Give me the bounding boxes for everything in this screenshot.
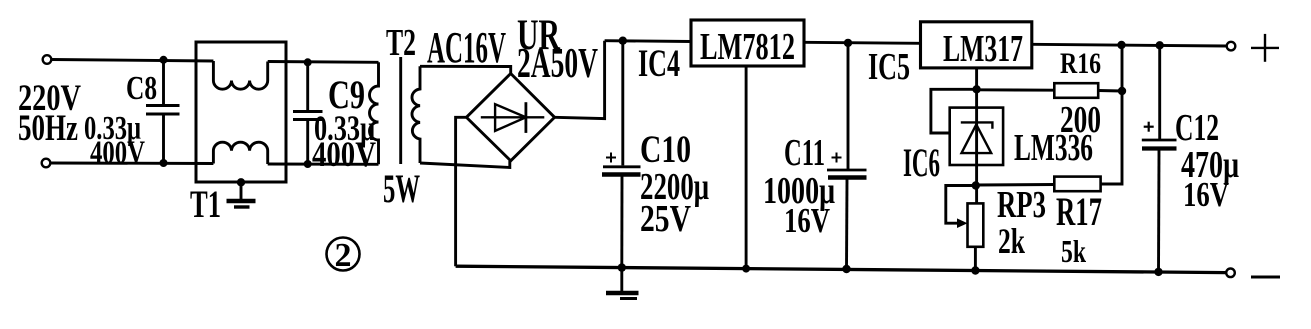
capacitor C9 <box>293 62 323 164</box>
svg-text:25V: 25V <box>640 198 691 240</box>
wire: T2 secondary bottom to bridge <box>420 161 510 168</box>
zener diode inside IC6 <box>961 122 993 153</box>
junction: R16 right <box>1118 87 1126 95</box>
svg-text:R16: R16 <box>1060 47 1101 80</box>
svg-text:C12: C12 <box>1175 107 1219 149</box>
output terminal - <box>1226 269 1235 278</box>
junction: C11 top <box>844 39 852 47</box>
wire: IC6 left pin loop <box>931 89 977 133</box>
svg-text:5k: 5k <box>1061 233 1086 269</box>
svg-text:IC4: IC4 <box>638 42 680 85</box>
regulator IC4 LM7812 box <box>691 20 804 66</box>
top rail: LM7812 to LM317 <box>804 42 921 43</box>
junction: C10 top <box>619 37 627 45</box>
capacitor C12 <box>1142 45 1177 272</box>
svg-text:16V: 16V <box>784 201 830 240</box>
T1 top winding <box>213 61 267 89</box>
svg-text:16V: 16V <box>1183 175 1229 214</box>
svg-text:T2: T2 <box>386 22 416 64</box>
ground symbol at T1 <box>227 182 256 207</box>
bridge rectifier UR diamond <box>466 74 554 161</box>
wire: RP3 bottom lead <box>974 247 977 271</box>
capacitor C11 <box>827 43 867 269</box>
svg-text:5W: 5W <box>383 166 420 211</box>
junction: C9 bottom <box>304 160 312 168</box>
capacitor C10 <box>602 41 641 268</box>
plus mark C10 <box>606 153 616 163</box>
wire: LM317 ADJ pin down <box>975 68 978 204</box>
plus sign <box>1251 34 1279 62</box>
minus sign <box>1251 276 1280 279</box>
wire: T2 secondary top to bridge <box>420 66 511 73</box>
wire: bridge positive up to top rail <box>555 41 605 119</box>
T2 core <box>399 57 402 164</box>
junction: C8 bottom <box>160 159 168 167</box>
wire: top AC input to T1 winding <box>52 60 214 62</box>
plus mark C11 <box>832 153 842 163</box>
svg-text:50Hz: 50Hz <box>18 108 78 149</box>
junction: RP3 at rail <box>971 266 979 274</box>
RP3 wiper arrowhead <box>957 218 968 228</box>
wire: LM7812 ground pin <box>745 66 748 269</box>
junction: LM7812 gnd at rail <box>742 265 750 273</box>
svg-text:2k: 2k <box>998 221 1025 261</box>
bottom rail <box>456 266 1226 272</box>
reference IC6 LM336 box <box>950 108 1003 165</box>
resistor R17 body <box>1054 177 1100 192</box>
AC input terminal top <box>43 55 52 64</box>
junction: C10 bottom <box>618 263 626 271</box>
wire: R17 right lead <box>1101 45 1122 184</box>
junction: C12 top <box>1156 41 1164 49</box>
wire: ADJ to R16 <box>977 88 1055 91</box>
svg-text:2A50V: 2A50V <box>517 41 598 87</box>
wire: bottom AC input to T1 winding <box>51 162 214 165</box>
potentiometer RP3 body <box>968 203 984 246</box>
top rail: bridge to LM7812 <box>605 39 691 43</box>
transformer T1 shield box <box>196 42 286 182</box>
svg-text:2: 2 <box>335 237 352 274</box>
svg-text:LM317: LM317 <box>943 28 1023 70</box>
svg-text:C10: C10 <box>640 128 691 171</box>
resistor R16 body <box>1054 83 1098 98</box>
wire: R16 right lead <box>1098 89 1122 92</box>
junction: IC6/RP3/R17 node <box>972 181 980 189</box>
transformer T2 primary winding <box>370 62 379 164</box>
svg-text:AC16V: AC16V <box>427 23 506 72</box>
svg-text:400V: 400V <box>312 134 376 174</box>
junction: C9 top <box>304 58 312 66</box>
junction: C8 top <box>160 56 168 64</box>
figure number 2 in circle <box>327 237 360 274</box>
svg-text:RP3: RP3 <box>997 184 1046 226</box>
junction: C11 bottom <box>842 265 850 273</box>
regulator IC5 LM317 box <box>921 22 1032 68</box>
junction: T1 shield ground tap <box>237 178 245 186</box>
junction: C12 bottom <box>1154 268 1162 276</box>
plus mark C12 <box>1144 122 1154 132</box>
svg-text:T1: T1 <box>190 183 221 226</box>
svg-text:C11: C11 <box>784 132 825 174</box>
wire: RP3 wiper loop <box>946 186 976 224</box>
diode inside UR <box>481 102 545 133</box>
ground symbol at bottom rail <box>606 268 639 299</box>
wire: T1 to T2 top <box>268 60 379 64</box>
capacitor C8 <box>146 60 180 164</box>
svg-text:IC6: IC6 <box>903 140 940 185</box>
svg-text:LM7812: LM7812 <box>700 26 795 68</box>
output terminal + <box>1227 42 1236 51</box>
T1 bottom winding <box>213 142 267 164</box>
T2 secondary winding <box>412 66 420 163</box>
wire: T1 to T2 bottom <box>268 163 379 166</box>
top rail: LM317 to + terminal <box>1032 44 1227 46</box>
svg-text:IC5: IC5 <box>868 46 910 88</box>
svg-text:200: 200 <box>1060 99 1101 141</box>
junction: rail at x1122 <box>1117 41 1125 49</box>
wire: node to R17 <box>976 183 1055 186</box>
junction: ADJ node <box>972 85 980 93</box>
wire: bridge negative to bottom rail <box>456 117 467 266</box>
svg-text:R17: R17 <box>1056 189 1102 234</box>
AC input terminal bottom <box>42 159 51 168</box>
svg-text:C8: C8 <box>126 70 157 107</box>
svg-text:400V: 400V <box>90 135 145 171</box>
